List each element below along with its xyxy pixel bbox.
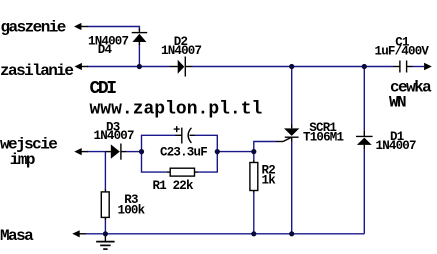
svg-text:WN: WN (389, 94, 406, 112)
svg-text:gaszenie: gaszenie (1, 19, 66, 37)
svg-text:1uF/400V: 1uF/400V (375, 45, 430, 59)
svg-text:1N4007: 1N4007 (376, 139, 417, 153)
svg-text:T106M1: T106M1 (303, 130, 344, 144)
svg-text:100k: 100k (118, 204, 146, 218)
svg-text:zasilanie: zasilanie (0, 62, 73, 80)
svg-text:1k: 1k (262, 174, 277, 188)
svg-text:imp: imp (10, 151, 35, 169)
svg-text:1N4007: 1N4007 (94, 129, 135, 143)
svg-text:Masa: Masa (0, 227, 34, 245)
svg-text:www.zaplon.pl.tl: www.zaplon.pl.tl (90, 100, 263, 120)
svg-text:1N4007: 1N4007 (161, 44, 202, 58)
svg-text:C23.3uF: C23.3uF (160, 145, 207, 159)
svg-text:D4: D4 (98, 43, 113, 57)
svg-text:R1 22k: R1 22k (153, 179, 195, 193)
svg-text:CDI: CDI (90, 79, 117, 99)
